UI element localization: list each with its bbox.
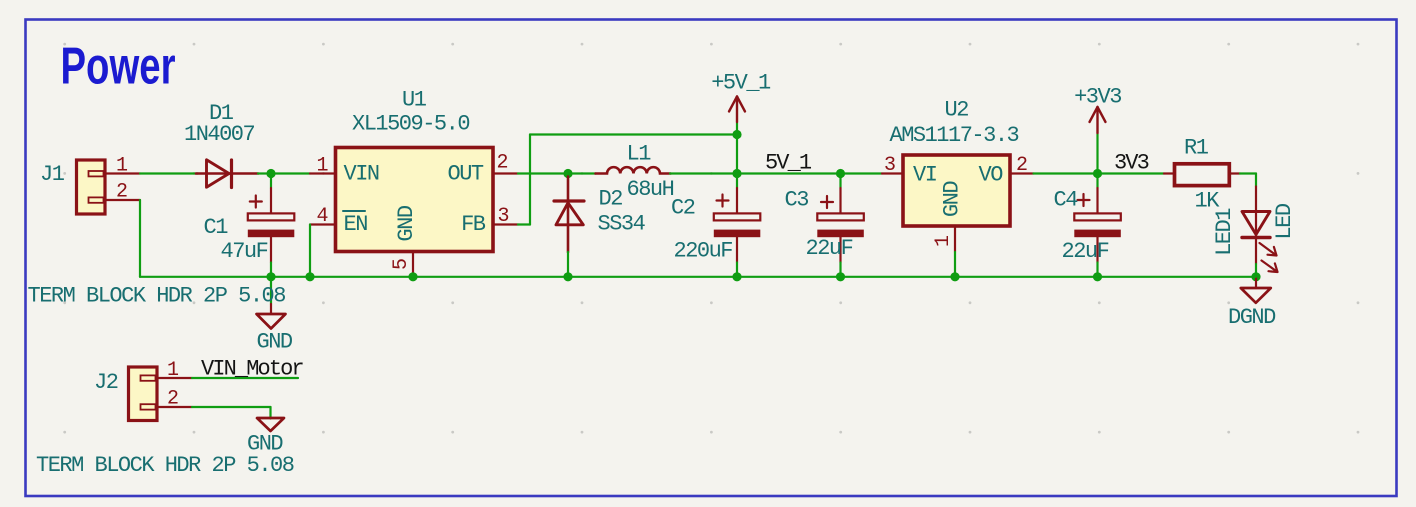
connector J1 xyxy=(77,160,106,214)
svg-text:+3V3: +3V3 xyxy=(1074,85,1121,110)
svg-text:1: 1 xyxy=(167,359,179,382)
svg-text:VO: VO xyxy=(979,163,1004,188)
svg-text:GND: GND xyxy=(940,181,965,217)
title Power xyxy=(61,38,176,96)
junction U2 GND/rail xyxy=(950,272,959,281)
svg-text:1: 1 xyxy=(116,155,128,178)
capacitor C2 xyxy=(714,174,761,277)
ground DGND xyxy=(1241,277,1271,303)
svg-text:D2: D2 xyxy=(599,187,623,212)
U2 pin 3 VI xyxy=(882,154,903,177)
label D1 xyxy=(209,101,234,126)
value 1N4007 xyxy=(184,122,255,147)
svg-text:2: 2 xyxy=(167,388,178,411)
capacitor C3 xyxy=(817,174,864,277)
label TERM BLOCK J1 xyxy=(28,284,286,309)
net label 3V3 xyxy=(1114,151,1149,176)
U1 pin name GND xyxy=(394,205,419,241)
svg-text:TERM BLOCK HDR 2P 5.08: TERM BLOCK HDR 2P 5.08 xyxy=(28,284,286,309)
svg-text:DGND: DGND xyxy=(1228,305,1276,330)
label LED1 xyxy=(1212,208,1237,256)
junction EN/rail xyxy=(305,272,314,281)
wire U2 GND to rail xyxy=(954,252,956,277)
svg-text:SS34: SS34 xyxy=(598,212,646,237)
U2 pin 2 VO xyxy=(1010,154,1034,177)
label +5V_1 xyxy=(711,71,771,96)
value 22uF C4 xyxy=(1062,239,1109,264)
svg-text:2: 2 xyxy=(116,181,127,204)
wire OUT to D2 xyxy=(518,172,568,174)
value 1K xyxy=(1195,189,1221,214)
label R1 xyxy=(1184,136,1209,161)
label C1 xyxy=(204,215,229,240)
value XL1509-5.0 xyxy=(352,112,469,137)
value 22uF C3 xyxy=(806,236,853,261)
label GND xyxy=(257,330,293,355)
svg-text:68uH: 68uH xyxy=(627,177,674,202)
U1 pin name EN xyxy=(343,211,367,237)
svg-text:C2: C2 xyxy=(671,196,695,221)
power +3V3 xyxy=(1090,107,1106,133)
svg-text:+5V_1: +5V_1 xyxy=(711,71,771,96)
value 47uF xyxy=(221,239,268,264)
wire J1 pin2 drop xyxy=(139,200,141,277)
svg-text:3: 3 xyxy=(498,205,509,228)
wire FB riser xyxy=(518,135,530,225)
svg-text:J1: J1 xyxy=(40,162,65,187)
power +5V_1 xyxy=(729,97,745,123)
label C4 xyxy=(1054,188,1079,213)
label D2 xyxy=(599,187,623,212)
J1 pin 2 xyxy=(104,181,140,204)
wire 5V riser xyxy=(736,122,738,174)
value 220uF xyxy=(674,239,733,264)
svg-text:C1: C1 xyxy=(204,215,229,240)
junction C4/rail xyxy=(1093,272,1102,281)
U2 pin 1 GND xyxy=(932,226,955,252)
diode D1 xyxy=(196,160,258,188)
junction C3/rail xyxy=(836,272,845,281)
ic U2 body xyxy=(903,155,1010,226)
label GND J2 xyxy=(247,432,283,457)
svg-text:C4: C4 xyxy=(1054,188,1079,213)
junction C1/bottom rail xyxy=(266,272,275,281)
capacitor C4 xyxy=(1074,174,1121,277)
svg-text:AMS1117-3.3: AMS1117-3.3 xyxy=(890,123,1019,148)
junction 5V/top xyxy=(732,130,741,139)
U1 pin 1 VIN xyxy=(310,155,336,178)
svg-text:LED1: LED1 xyxy=(1212,208,1237,256)
net label 5V_1 xyxy=(765,151,812,176)
label +3V3 xyxy=(1074,85,1121,110)
svg-text:5: 5 xyxy=(390,259,413,270)
svg-text:4: 4 xyxy=(317,205,328,228)
svg-text:5V_1: 5V_1 xyxy=(765,151,812,176)
led LED1 xyxy=(1242,187,1278,273)
U1 pin name VIN xyxy=(344,162,379,187)
wire D2 to rail xyxy=(567,252,569,277)
label L1 xyxy=(627,142,652,167)
U1 pin name FB xyxy=(461,212,486,237)
value 68uH xyxy=(627,177,674,202)
svg-text:2: 2 xyxy=(1016,154,1027,177)
U1 pin 4 EN xyxy=(310,205,336,228)
label J1 xyxy=(40,162,65,187)
ground GND J2 xyxy=(257,418,284,431)
wire VIN_Motor xyxy=(192,377,298,379)
net label VIN_Motor xyxy=(201,357,303,382)
junction 3V3/main xyxy=(1093,169,1102,178)
svg-text:1: 1 xyxy=(317,155,329,178)
J1 pin 1 xyxy=(104,155,140,178)
svg-text:XL1509-5.0: XL1509-5.0 xyxy=(352,112,469,137)
junction D2/rail xyxy=(563,272,572,281)
wire 5V to U2 xyxy=(737,172,882,174)
svg-text:C3: C3 xyxy=(785,188,809,213)
junction 5V/main xyxy=(732,169,741,178)
connector J2 xyxy=(129,367,158,421)
junction C2/rail xyxy=(732,272,741,281)
svg-text:1N4007: 1N4007 xyxy=(184,122,255,147)
ic U1 body xyxy=(336,148,494,252)
wire VO to 3V3 node xyxy=(1034,172,1098,174)
svg-text:22uF: 22uF xyxy=(1062,239,1109,264)
wire J1 pin1 to D1 xyxy=(140,172,198,174)
wire J2 pin2 to gnd xyxy=(192,407,271,419)
svg-text:EN: EN xyxy=(344,212,368,237)
svg-text:2: 2 xyxy=(497,152,508,175)
U1 pin 2 OUT xyxy=(493,152,518,175)
inductor L1 xyxy=(596,167,671,173)
wire LED to rail xyxy=(1255,264,1257,277)
label TERM BLOCK J2 xyxy=(36,453,294,478)
svg-text:Power: Power xyxy=(61,38,176,96)
value AMS1117-3.3 xyxy=(890,123,1019,148)
U2 pin name VO xyxy=(979,163,1004,188)
svg-text:TERM BLOCK HDR 2P 5.08: TERM BLOCK HDR 2P 5.08 xyxy=(36,453,294,478)
wire R1 to LED xyxy=(1240,174,1256,187)
svg-text:U1: U1 xyxy=(402,88,427,113)
diode D2 xyxy=(554,177,584,253)
U1 pin 3 FB xyxy=(493,205,518,228)
svg-text:1: 1 xyxy=(932,235,955,247)
wire FB top run xyxy=(530,133,737,135)
ground GND xyxy=(257,277,286,329)
svg-text:VIN: VIN xyxy=(344,162,379,187)
wire 3V3 riser xyxy=(1096,133,1098,174)
svg-text:GND: GND xyxy=(257,330,293,355)
J2 pin 2 xyxy=(156,388,192,411)
junction C3/main xyxy=(836,169,845,178)
label U2 xyxy=(945,98,969,123)
junction D2/main xyxy=(563,169,572,178)
svg-text:L1: L1 xyxy=(627,142,652,167)
resistor R1 xyxy=(1164,164,1240,186)
value LED xyxy=(1272,203,1297,239)
svg-text:3V3: 3V3 xyxy=(1114,151,1149,176)
label J2 xyxy=(94,370,118,395)
junction U1 GND/rail xyxy=(408,272,417,281)
svg-text:R1: R1 xyxy=(1184,136,1209,161)
label C3 xyxy=(785,188,809,213)
svg-text:VIN_Motor: VIN_Motor xyxy=(201,357,303,382)
wire D1 to U1 VIN xyxy=(258,172,310,174)
label C2 xyxy=(671,196,695,221)
svg-text:47uF: 47uF xyxy=(221,239,268,264)
svg-text:J2: J2 xyxy=(94,370,118,395)
svg-text:U2: U2 xyxy=(945,98,969,123)
capacitor C1 xyxy=(248,174,294,277)
svg-text:LED: LED xyxy=(1272,203,1297,239)
U1 pin name OUT xyxy=(448,162,484,187)
U1 pin 5 GND xyxy=(390,252,413,277)
svg-text:GND: GND xyxy=(394,205,419,241)
svg-text:VI: VI xyxy=(913,163,937,188)
wire L1 to 5V node xyxy=(670,172,737,174)
junction LED/rail xyxy=(1251,272,1260,281)
junction node C1/main xyxy=(266,169,275,178)
wire D2 node to L1 xyxy=(568,172,596,174)
wire EN to rail xyxy=(309,225,311,277)
U2 pin name VI xyxy=(913,163,937,188)
svg-text:3: 3 xyxy=(884,154,895,177)
svg-text:FB: FB xyxy=(461,212,486,237)
J2 pin 1 xyxy=(156,359,192,382)
U2 pin name GND xyxy=(940,181,965,217)
wire 3V3 to R1 xyxy=(1098,172,1165,174)
wire bottom rail xyxy=(140,276,1256,278)
value SS34 xyxy=(598,212,646,237)
svg-text:22uF: 22uF xyxy=(806,236,853,261)
label U1 xyxy=(402,88,427,113)
svg-text:220uF: 220uF xyxy=(674,239,733,264)
svg-text:OUT: OUT xyxy=(448,162,484,187)
label DGND xyxy=(1228,305,1276,330)
